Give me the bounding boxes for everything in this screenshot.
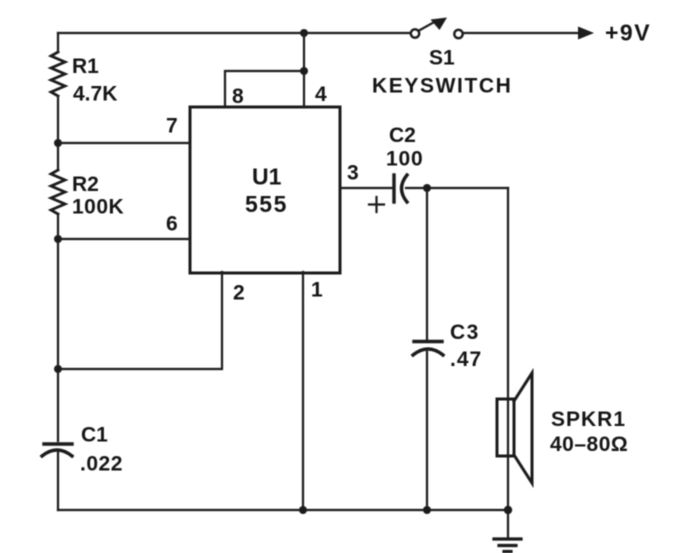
wire pin 1 (down from box to bottom rail)	[302, 272, 304, 510]
node junction speaker/bottom rail/ground	[504, 506, 512, 514]
wire C3 branch upper	[426, 188, 428, 340]
ground	[494, 539, 521, 552]
speaker SPKR1 40-80 ohm	[497, 373, 628, 483]
wire top rail from left corner to switch S1	[58, 32, 410, 34]
svg-text:C2: C2	[389, 124, 416, 147]
svg-text:4.7K: 4.7K	[73, 83, 117, 106]
svg-text:7: 7	[166, 115, 178, 138]
svg-text:.022: .022	[80, 453, 123, 476]
node junction left rail pin6	[54, 235, 62, 243]
wire speaker branch vertical	[507, 188, 509, 510]
wire left rail R1 to R2	[57, 96, 59, 170]
svg-text:100: 100	[386, 148, 423, 171]
node junction C3/bottom rail	[423, 506, 431, 514]
wire pin 4 (up from box to top rail)	[303, 33, 305, 107]
svg-text:+9V: +9V	[605, 20, 651, 46]
node junction pin1/bottom rail	[299, 506, 307, 514]
svg-text:4: 4	[315, 83, 327, 106]
svg-text:S1: S1	[429, 47, 455, 70]
node junction left rail pin2	[54, 365, 62, 373]
svg-text:40–80Ω: 40–80Ω	[550, 433, 628, 456]
svg-text:KEYSWITCH: KEYSWITCH	[372, 75, 512, 98]
svg-text:8: 8	[232, 85, 244, 108]
svg-text:1: 1	[311, 279, 323, 302]
svg-text:R1: R1	[72, 55, 99, 78]
wire ground stub	[507, 510, 509, 538]
wire pin 6	[58, 238, 190, 240]
capacitor C2 100 (polarized)	[369, 124, 423, 212]
resistor R1	[51, 52, 117, 106]
wire pin 7	[58, 142, 190, 144]
wire pin 2 (down from box then left to rail)	[58, 272, 222, 369]
wire C3 branch lower to bottom rail	[426, 352, 428, 510]
wire left rail C1 to bottom corner	[57, 452, 59, 510]
wire pin 8 (up from box, right to pin4 wire)	[225, 71, 304, 107]
svg-text:C1: C1	[81, 424, 108, 447]
node junction left rail pin7	[54, 139, 62, 147]
svg-text:U1: U1	[252, 164, 282, 190]
wire C2 output to speaker branch	[406, 187, 508, 189]
capacitor C3 .47	[413, 321, 482, 371]
wire pin 3 output	[340, 187, 392, 189]
switch S1 KEYSWITCH	[372, 18, 512, 98]
svg-text:100K: 100K	[72, 196, 124, 219]
node junction pin8/pin4 wires	[300, 67, 308, 75]
svg-text:3: 3	[347, 162, 359, 185]
svg-text:2: 2	[233, 282, 245, 305]
svg-text:.47: .47	[450, 348, 482, 371]
svg-text:555: 555	[245, 191, 288, 217]
svg-text:R2: R2	[72, 173, 99, 196]
node junction C2 out / C3 branch	[423, 184, 431, 192]
wire bottom rail	[58, 509, 508, 511]
resistor R2	[51, 170, 124, 219]
svg-text:SPKR1: SPKR1	[551, 408, 626, 431]
svg-text:6: 6	[166, 213, 178, 236]
capacitor C1 .022	[42, 424, 123, 476]
svg-text:C3: C3	[450, 321, 480, 344]
op-amp U1 555 timer box	[190, 107, 340, 273]
power +9V arrow	[578, 20, 651, 46]
wire left rail R2 down to C1	[57, 214, 59, 441]
node junction pin4/top rail	[300, 29, 308, 37]
wire switch S1 to +9V arrow	[463, 32, 581, 34]
wire left rail top segment	[57, 33, 59, 52]
